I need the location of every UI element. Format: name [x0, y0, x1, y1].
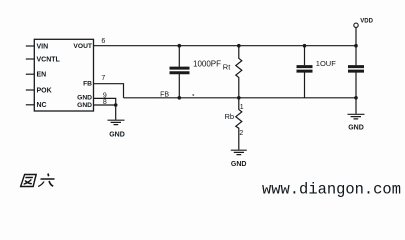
junction node top C3 — [354, 44, 358, 48]
svg-text:VCNTL: VCNTL — [37, 56, 61, 63]
VDD terminal circle — [354, 23, 358, 27]
capacitor C2 1OUF stems — [304, 46, 306, 98]
svg-text:GND: GND — [109, 132, 125, 139]
pin NC stub — [26, 104, 35, 106]
wire VOUT net top — [94, 45, 357, 47]
wire FB net lower — [124, 97, 357, 99]
svg-text:Rb: Rb — [225, 112, 235, 121]
capacitor C3 plates — [348, 67, 364, 72]
svg-text:POK: POK — [37, 87, 52, 94]
capacitor C2 plates — [297, 67, 313, 72]
svg-text:EN: EN — [37, 72, 47, 79]
svg-text:NC: NC — [37, 102, 47, 109]
svg-text:GND: GND — [77, 95, 92, 102]
svg-text:7: 7 — [101, 75, 105, 82]
junction node bottom C1 — [178, 96, 182, 100]
ground symbol IC — [108, 120, 125, 124]
svg-text:6: 6 — [101, 38, 105, 45]
ground symbol right — [348, 114, 365, 119]
svg-text:GND: GND — [77, 102, 92, 109]
svg-text:_FB: _FB — [155, 91, 169, 98]
capacitor C1 plates — [170, 68, 190, 73]
stray dot mark — [193, 94, 195, 96]
svg-text:1OUF: 1OUF — [316, 59, 336, 68]
svg-text:1: 1 — [240, 104, 244, 111]
wire GND pin9 — [94, 98, 116, 105]
pin POK stub — [26, 89, 35, 91]
caption 图六 (figure six) drawn strokes — [21, 174, 57, 187]
wire FB pin7 — [94, 84, 124, 98]
svg-text:1000PF: 1000PF — [193, 59, 221, 68]
junction node top Rt — [237, 44, 241, 48]
junction node bottom C3 — [354, 96, 358, 100]
junction node top C1 — [178, 44, 182, 48]
svg-text:VOUT: VOUT — [73, 43, 92, 50]
pin VIN stub — [26, 45, 35, 47]
wire GND pin8 — [94, 104, 116, 106]
resistor Rt body — [236, 46, 242, 98]
IC U1 body — [34, 39, 93, 111]
capacitor C3 stems — [355, 46, 357, 98]
svg-text:FB: FB — [83, 80, 92, 87]
pin VCNTL stub — [26, 58, 35, 60]
junction node top C2 — [303, 44, 307, 48]
svg-text:GND: GND — [348, 124, 364, 131]
wire VDD stem — [355, 28, 357, 46]
wire right ground stem — [355, 98, 357, 114]
svg-text:VDD: VDD — [360, 18, 373, 24]
svg-text:VIN: VIN — [37, 43, 49, 50]
resistor Rb body — [236, 98, 242, 150]
svg-text:8: 8 — [103, 99, 107, 106]
junction node bottom Rt — [237, 96, 241, 100]
svg-text:GND: GND — [231, 161, 247, 168]
ground symbol Rb — [231, 150, 247, 154]
pin EN stub — [26, 73, 35, 75]
svg-text:2: 2 — [239, 130, 243, 137]
svg-text:Rt: Rt — [223, 62, 231, 71]
svg-text:www.diangon.com: www.diangon.com — [262, 180, 401, 198]
capacitor C1 1000PF stems — [178, 46, 180, 98]
wire IC ground stem — [115, 105, 117, 120]
junction node pin8 gnd — [114, 103, 118, 107]
